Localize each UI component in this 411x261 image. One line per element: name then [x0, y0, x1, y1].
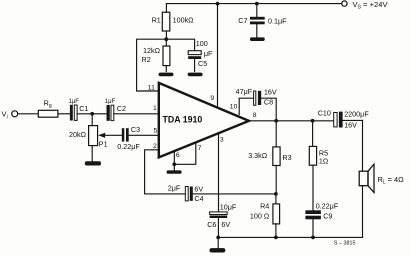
svg-text:47μF: 47μF [236, 87, 253, 96]
svg-text:C3: C3 [131, 125, 140, 134]
svg-text:6V: 6V [221, 220, 230, 229]
svg-text:TDA 1910: TDA 1910 [163, 115, 203, 125]
svg-text:R2: R2 [142, 55, 151, 64]
resistor R3 [273, 121, 280, 194]
svg-text:1μF: 1μF [69, 99, 80, 105]
svg-text:12kΩ: 12kΩ [143, 46, 161, 55]
svg-text:VS = +24V: VS = +24V [353, 0, 389, 10]
resistor R2 [163, 39, 170, 71]
svg-text:5: 5 [154, 128, 158, 135]
op-amp U1 TDA1910 triangle [159, 83, 249, 157]
node junction bottom rail C9 [311, 236, 315, 240]
svg-text:C6: C6 [207, 220, 216, 229]
svg-text:100: 100 [196, 39, 208, 48]
svg-text:9: 9 [210, 95, 214, 102]
wire speaker branch [362, 120, 364, 171]
node junction rail/pin9 [216, 2, 220, 6]
node junction bottom rail C6 [216, 236, 220, 240]
svg-text:C9: C9 [323, 211, 332, 220]
svg-text:P1: P1 [99, 139, 108, 148]
node Vi terminal [12, 111, 18, 117]
svg-text:C2: C2 [117, 104, 126, 113]
svg-text:100 Ω: 100 Ω [250, 211, 270, 220]
svg-text:100kΩ: 100kΩ [173, 16, 195, 25]
svg-text:μF: μF [204, 49, 213, 58]
svg-text:1μF: 1μF [105, 99, 116, 105]
svg-text:6V: 6V [194, 184, 203, 193]
node junction bottom rail R4 [274, 236, 278, 240]
svg-text:R1: R1 [152, 16, 161, 25]
resistor Rg [38, 110, 58, 117]
loudspeaker RL [359, 164, 374, 192]
svg-text:7: 7 [198, 145, 202, 152]
wire pin 3 [218, 134, 220, 212]
svg-text:3.3kΩ: 3.3kΩ [248, 151, 268, 160]
svg-text:10: 10 [230, 103, 238, 110]
svg-text:R3: R3 [282, 153, 291, 162]
wire pin 2 to C4 [145, 150, 186, 194]
ground below C5 [188, 73, 203, 77]
node junction rail/C7 [255, 2, 259, 6]
svg-text:R4: R4 [260, 202, 269, 211]
capacitor C6 [210, 212, 228, 238]
wire speaker to bottom rail [362, 186, 364, 238]
capacitor C9 [305, 210, 321, 237]
wire pin 10 [239, 98, 253, 114]
svg-text:2μF: 2μF [168, 183, 181, 192]
svg-text:C1: C1 [79, 104, 88, 113]
node junction below R1 [164, 37, 168, 41]
wire C8 branch [261, 98, 276, 121]
svg-text:10μF: 10μF [220, 202, 237, 211]
svg-text:C4: C4 [194, 194, 203, 203]
ground below C7 [250, 37, 265, 41]
svg-text:16V: 16V [344, 120, 357, 129]
capacitor C2 [92, 105, 157, 121]
wire junction to pin 11 [137, 39, 167, 91]
wire [58, 113, 70, 115]
svg-text:20kΩ: 20kΩ [69, 130, 87, 139]
svg-text:S – 3815: S – 3815 [334, 241, 356, 247]
capacitor C3 [122, 128, 158, 141]
resistor R1 [162, 4, 170, 40]
svg-text:16V: 16V [264, 87, 277, 96]
svg-text:3: 3 [220, 137, 224, 144]
capacitor C1 [70, 105, 92, 121]
wire ground stub [217, 237, 219, 248]
svg-text:C10: C10 [318, 108, 331, 117]
capacitor C10 [334, 112, 363, 128]
node junction output/C8/R3 [274, 119, 278, 123]
svg-text:C5: C5 [198, 59, 207, 68]
wire input [18, 113, 39, 115]
potentiometer P1 [89, 114, 122, 161]
svg-text:2: 2 [153, 143, 157, 150]
wire to ground [173, 164, 175, 170]
node junction R3/R4/C4 [274, 192, 278, 196]
node junction C1/C2/P1 [90, 112, 94, 116]
svg-text:8: 8 [253, 112, 257, 119]
ground bottom rail [210, 248, 226, 252]
wire pin 6 [173, 152, 175, 164]
svg-text:6: 6 [176, 152, 180, 159]
wire top supply rail [166, 3, 341, 5]
resistor R5 [309, 121, 316, 211]
ground below pins 6,7 [167, 170, 182, 173]
wire output pin 8 row [249, 120, 334, 122]
svg-text:11: 11 [148, 85, 155, 92]
svg-text:C7: C7 [238, 16, 247, 25]
ground below P1 [85, 161, 101, 165]
svg-text:0.1μF: 0.1μF [268, 17, 287, 26]
node Vs terminal [342, 1, 347, 6]
wire pin 9 [217, 4, 219, 106]
svg-text:1Ω: 1Ω [319, 157, 329, 166]
ground below R2 [159, 73, 174, 77]
svg-text:1: 1 [153, 105, 157, 112]
capacitor C4 [185, 187, 276, 201]
wire junction to C5 [166, 39, 194, 51]
wire bottom rail [218, 236, 362, 238]
svg-text:2200μF: 2200μF [344, 109, 369, 118]
svg-text:Rg: Rg [44, 98, 52, 109]
svg-text:RL = 4Ω: RL = 4Ω [378, 175, 405, 186]
node junction output/R5 [311, 119, 315, 123]
capacitor C5 [188, 51, 201, 72]
resistor R4 [273, 194, 280, 238]
svg-text:0.22μF: 0.22μF [316, 201, 339, 210]
svg-text:Vi: Vi [2, 110, 8, 121]
node junction pin6/7 [172, 162, 176, 166]
svg-text:C8: C8 [264, 98, 273, 107]
capacitor C7 [250, 4, 265, 38]
capacitor C8 [254, 91, 262, 106]
wire pin 7 [174, 144, 196, 165]
svg-text:0.22μF: 0.22μF [117, 142, 140, 151]
